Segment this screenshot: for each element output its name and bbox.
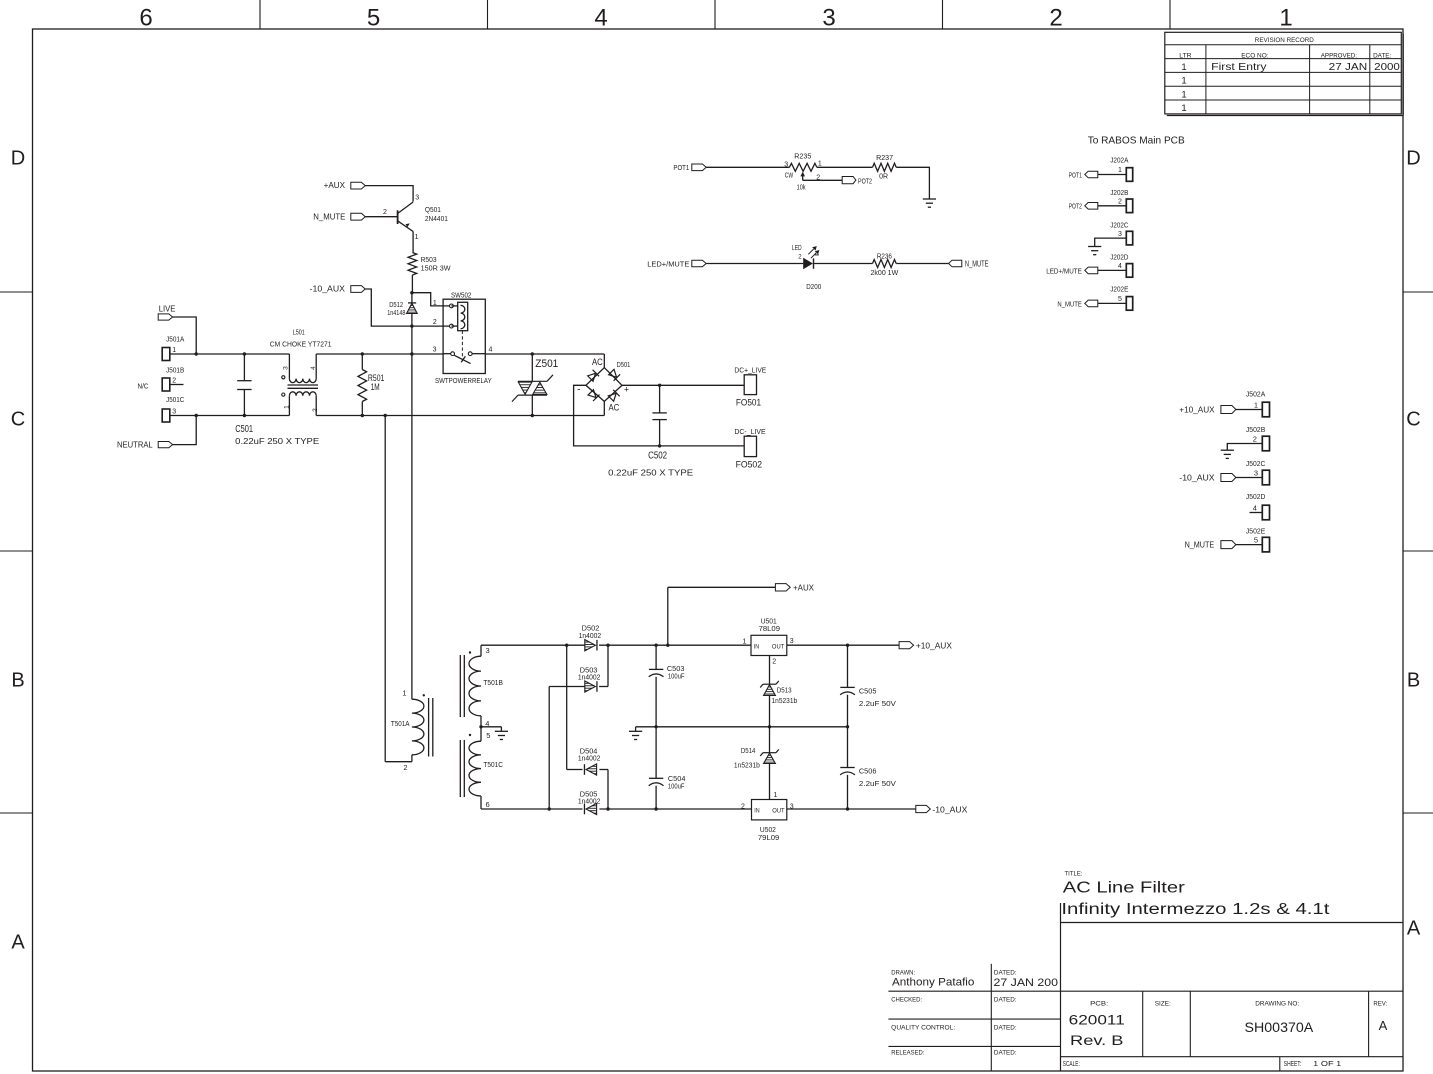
svg-text:AC Line Filter: AC Line Filter xyxy=(1063,880,1185,897)
net tag +AUX at Q501 xyxy=(351,182,365,189)
wire live rail to T501A pin 1 xyxy=(411,354,413,699)
ground at mid rail xyxy=(629,730,642,732)
svg-text:4: 4 xyxy=(488,347,492,354)
svg-text:1: 1 xyxy=(1279,5,1292,32)
svg-text:2: 2 xyxy=(1049,5,1062,32)
svg-text:A: A xyxy=(1379,1018,1388,1033)
svg-text:AC: AC xyxy=(609,403,620,413)
wire T501C pin6 rail xyxy=(481,808,583,810)
svg-text:REV:: REV: xyxy=(1373,1001,1387,1007)
svg-text:2: 2 xyxy=(741,804,745,811)
wire LIVE to J501A pin 1 xyxy=(173,317,197,354)
svg-text:LIVE: LIVE xyxy=(159,304,176,314)
resistor R236 xyxy=(873,260,897,268)
svg-text:B: B xyxy=(11,670,24,692)
svg-text:CM CHOKE YT7271: CM CHOKE YT7271 xyxy=(270,339,332,348)
L501 bottom winding xyxy=(288,396,290,416)
svg-text:2.2uF 50V: 2.2uF 50V xyxy=(859,699,896,708)
svg-text:J501B: J501B xyxy=(166,367,184,374)
wire LED to R236 xyxy=(814,263,873,265)
svg-text:FO501: FO501 xyxy=(736,397,761,407)
svg-text:1n4148: 1n4148 xyxy=(387,310,405,317)
svg-text:2000: 2000 xyxy=(1374,62,1400,73)
T501C core xyxy=(459,740,461,797)
svg-text:100uF: 100uF xyxy=(668,672,685,681)
svg-text:SH00370A: SH00370A xyxy=(1245,1020,1314,1035)
svg-text:C505: C505 xyxy=(859,687,877,696)
svg-text:6: 6 xyxy=(486,800,490,809)
connector J202A xyxy=(1110,158,1128,165)
svg-text:J202D: J202D xyxy=(1110,254,1128,261)
svg-text:1: 1 xyxy=(1181,76,1186,87)
svg-text:4: 4 xyxy=(485,719,489,728)
relay SW502 outline xyxy=(443,299,485,373)
svg-text:1 OF 1: 1 OF 1 xyxy=(1313,1061,1341,1068)
inductor L501 CM choke top winding xyxy=(288,354,290,379)
pin labels Q501 xyxy=(383,195,448,242)
transformer T501B secondary xyxy=(480,645,482,656)
svg-text:2: 2 xyxy=(772,659,776,666)
faston FO502 DC-_LIVE xyxy=(744,436,756,456)
svg-text:PCB:: PCB: xyxy=(1090,1001,1109,1007)
vertical D502 junction down to D504 xyxy=(566,645,568,769)
svg-text:AC: AC xyxy=(592,357,603,367)
wire U502 out to -10_AUX xyxy=(787,808,916,810)
capacitor C501 xyxy=(243,354,245,381)
svg-text:+: + xyxy=(624,385,629,395)
svg-text:2: 2 xyxy=(1118,199,1122,206)
pin 1 J501A xyxy=(170,353,290,355)
wire U501 gnd pin to D513 xyxy=(769,656,771,685)
svg-text:DC-_LIVE: DC-_LIVE xyxy=(734,427,765,436)
T501C polarity dot xyxy=(469,734,471,736)
regulator U501 78L09 xyxy=(751,635,787,655)
net tag N_MUTE right xyxy=(949,260,962,267)
relay armature dashed link xyxy=(461,331,463,360)
T501 pins 4/5 junction to ground xyxy=(481,726,501,728)
svg-text:D514: D514 xyxy=(741,748,756,755)
wire R235 to R237 xyxy=(817,166,873,168)
svg-text:-10_AUX: -10_AUX xyxy=(1179,472,1215,482)
svg-text:5: 5 xyxy=(367,5,380,32)
svg-text:C: C xyxy=(1406,409,1420,431)
svg-text:1: 1 xyxy=(1181,89,1186,100)
transformer T501A primary xyxy=(412,699,424,755)
svg-text:D512: D512 xyxy=(389,302,403,309)
faston FO501 DC+_LIVE xyxy=(744,375,756,395)
junction LIVE/pin1 xyxy=(195,352,198,355)
svg-text:Infinity Intermezzo 1.2s & 4.1: Infinity Intermezzo 1.2s & 4.1t xyxy=(1061,901,1330,918)
svg-text:N_MUTE: N_MUTE xyxy=(1185,539,1215,549)
svg-text:27 JAN: 27 JAN xyxy=(1329,62,1368,73)
connector J501C xyxy=(162,409,170,422)
wire R237 to ground xyxy=(896,167,929,199)
svg-text:R237: R237 xyxy=(876,155,893,162)
svg-text:4: 4 xyxy=(1253,503,1257,512)
svg-text:+AUX: +AUX xyxy=(793,583,814,593)
svg-text:5: 5 xyxy=(486,731,490,740)
net tag POT1 xyxy=(692,164,706,171)
capacitor C504 xyxy=(655,727,657,779)
svg-text:6: 6 xyxy=(139,5,152,32)
connector J202B xyxy=(1110,190,1128,197)
regulator U502 79L09 xyxy=(752,800,787,820)
svg-text:+10_AUX: +10_AUX xyxy=(916,641,952,651)
wire POT1 to R235 xyxy=(706,166,789,168)
svg-text:0R: 0R xyxy=(879,173,888,180)
svg-text:1: 1 xyxy=(1254,400,1258,409)
relay pin 3 wire xyxy=(316,353,443,355)
svg-text:A: A xyxy=(1407,918,1421,940)
net tag -10_AUX at relay coil xyxy=(351,286,365,293)
transformer T501C secondary xyxy=(480,727,482,741)
transistor Q501 xyxy=(397,210,399,224)
svg-text:79L09: 79L09 xyxy=(758,833,779,842)
varistor Z501 xyxy=(531,354,533,381)
svg-text:1n4002: 1n4002 xyxy=(579,633,602,640)
L501 core xyxy=(288,384,319,386)
svg-text:N_MUTE: N_MUTE xyxy=(965,259,989,269)
svg-text:APPROVED:: APPROVED: xyxy=(1321,53,1357,60)
net tag +AUX output xyxy=(667,587,669,645)
connector J502C xyxy=(1246,461,1265,468)
svg-text:Anthony Patafio: Anthony Patafio xyxy=(892,977,974,989)
wire Q501 emitter to R503 xyxy=(412,232,414,253)
svg-text:3: 3 xyxy=(283,366,290,370)
svg-text:REVISION RECORD: REVISION RECORD xyxy=(1255,37,1314,44)
svg-text:QUALITY CONTROL:: QUALITY CONTROL: xyxy=(891,1025,955,1031)
svg-text:0.22uF 250 X TYPE: 0.22uF 250 X TYPE xyxy=(608,468,693,478)
svg-text:DRAWING NO:: DRAWING NO: xyxy=(1255,1001,1299,1007)
svg-text:1n4002: 1n4002 xyxy=(578,756,601,763)
svg-text:T501B: T501B xyxy=(483,678,503,687)
connector J502E xyxy=(1246,528,1266,535)
svg-text:LED+/MUTE: LED+/MUTE xyxy=(1046,268,1082,275)
svg-text:LED: LED xyxy=(792,243,802,252)
svg-text:1M: 1M xyxy=(371,382,380,392)
svg-text:TITLE:: TITLE: xyxy=(1065,872,1083,878)
svg-text:T501A: T501A xyxy=(391,719,410,728)
svg-text:3: 3 xyxy=(415,195,419,202)
svg-text:C506: C506 xyxy=(859,767,877,776)
svg-text:C502: C502 xyxy=(648,451,667,462)
svg-text:DC+_LIVE: DC+_LIVE xyxy=(734,366,766,375)
svg-text:LED+/MUTE: LED+/MUTE xyxy=(647,259,689,268)
svg-text:To RABOS Main PCB: To RABOS Main PCB xyxy=(1088,135,1185,147)
svg-text:OUT: OUT xyxy=(772,808,784,815)
svg-text:N/C: N/C xyxy=(138,381,149,390)
svg-text:DATED:: DATED: xyxy=(994,1051,1017,1057)
svg-text:4: 4 xyxy=(310,366,317,370)
junction NEUTRAL/pin3 xyxy=(195,414,198,417)
wire R236 to N_MUTE tag xyxy=(896,263,948,265)
svg-text:IN: IN xyxy=(754,643,760,650)
svg-text:1n4002: 1n4002 xyxy=(578,799,601,806)
capacitor C505 xyxy=(847,645,849,687)
svg-text:T501C: T501C xyxy=(483,760,503,769)
wire -10_AUX to relay pin 2 node xyxy=(365,289,412,326)
wire T501B pin3 to D502 xyxy=(481,644,585,646)
relay pin 4 wire xyxy=(472,353,485,355)
wire pin2 node to relay pin 2 xyxy=(412,325,450,327)
svg-text:SIZE:: SIZE: xyxy=(1155,1001,1171,1007)
wire Q501 base xyxy=(365,216,398,218)
svg-text:1: 1 xyxy=(284,405,291,409)
T501B polarity dot xyxy=(469,651,471,653)
svg-text:FO502: FO502 xyxy=(736,459,762,469)
pin 2 J501B n/c stub xyxy=(170,384,184,386)
wire NEUTRAL to J501C pin 3 xyxy=(173,416,197,445)
svg-text:1: 1 xyxy=(1181,103,1186,114)
ground at R237 xyxy=(923,198,936,200)
svg-text:J202E: J202E xyxy=(1110,287,1128,294)
svg-text:-10_AUX: -10_AUX xyxy=(932,804,967,814)
svg-text:D502: D502 xyxy=(582,626,600,633)
svg-text:R236: R236 xyxy=(877,253,892,260)
svg-text:27 JAN 200: 27 JAN 200 xyxy=(994,977,1059,989)
svg-text:3: 3 xyxy=(486,646,490,655)
svg-text:2: 2 xyxy=(816,174,820,181)
svg-text:1n5231b: 1n5231b xyxy=(734,763,760,770)
svg-text:1: 1 xyxy=(415,234,419,241)
connector J502B with ground xyxy=(1246,427,1266,434)
title block xyxy=(888,903,1403,1071)
svg-text:LTR: LTR xyxy=(1179,53,1192,60)
svg-text:C501: C501 xyxy=(235,424,253,435)
svg-text:100uF: 100uF xyxy=(668,782,685,791)
connector J202C with ground xyxy=(1110,222,1128,229)
resistor R237 xyxy=(873,163,897,171)
svg-text:Q501: Q501 xyxy=(425,205,441,214)
svg-text:CHECKED:: CHECKED: xyxy=(891,997,922,1003)
svg-text:3: 3 xyxy=(1118,231,1122,238)
svg-text:J501A: J501A xyxy=(166,337,184,344)
svg-text:R235: R235 xyxy=(794,153,811,160)
svg-text:2k00 1W: 2k00 1W xyxy=(871,268,900,277)
svg-text:2: 2 xyxy=(383,209,387,216)
zener D514 xyxy=(769,727,771,753)
vertical D503 anode down to pin6 rail xyxy=(548,687,550,810)
svg-text:D: D xyxy=(1406,148,1420,170)
svg-text:D504: D504 xyxy=(580,748,598,755)
svg-text:SHEET:: SHEET: xyxy=(1284,1061,1301,1068)
svg-text:4: 4 xyxy=(594,5,607,32)
svg-text:DATED:: DATED: xyxy=(994,1025,1017,1031)
svg-text:5: 5 xyxy=(1254,535,1258,544)
svg-text:78L09: 78L09 xyxy=(759,624,780,633)
diode D502 xyxy=(585,640,596,651)
svg-text:1n5231b: 1n5231b xyxy=(772,698,798,705)
svg-text:J502E: J502E xyxy=(1246,528,1266,535)
svg-text:N_MUTE: N_MUTE xyxy=(313,211,345,221)
connector J501A xyxy=(162,348,170,361)
bridge DC- wire xyxy=(574,385,745,446)
connector J501B xyxy=(162,378,170,391)
svg-text:3: 3 xyxy=(790,804,794,811)
zone tick marks xyxy=(0,0,1433,813)
R235 wiper xyxy=(800,172,805,177)
svg-text:IN: IN xyxy=(754,808,760,815)
wire U501 out to +10_AUX xyxy=(787,644,899,646)
svg-text:2: 2 xyxy=(1253,434,1257,443)
relay coil SW502 xyxy=(458,302,468,330)
svg-text:1: 1 xyxy=(402,688,406,697)
net tag +10_AUX output xyxy=(899,642,914,649)
svg-text:J501C: J501C xyxy=(166,397,184,404)
svg-text:3: 3 xyxy=(784,161,788,168)
connector J202D xyxy=(1110,254,1128,261)
svg-text:3: 3 xyxy=(1254,468,1258,477)
relay switch contacts xyxy=(451,352,455,356)
svg-text:Z501: Z501 xyxy=(535,358,558,370)
svg-text:D501: D501 xyxy=(617,362,631,369)
bridge DC+ wire xyxy=(622,384,744,386)
svg-text:Rev. B: Rev. B xyxy=(1070,1032,1124,1048)
net tag N_MUTE at Q501 xyxy=(351,213,365,220)
svg-text:POT2: POT2 xyxy=(858,176,872,185)
connector J202E xyxy=(1110,287,1128,294)
svg-text:DATE:: DATE: xyxy=(1373,53,1391,60)
svg-text:J502A: J502A xyxy=(1246,392,1266,399)
svg-text:DATED:: DATED: xyxy=(994,971,1017,977)
svg-text:SWTPOWERRELAY: SWTPOWERRELAY xyxy=(435,376,492,385)
diode D512 xyxy=(408,302,416,304)
svg-text:5: 5 xyxy=(1118,296,1122,303)
svg-text:1: 1 xyxy=(818,160,822,167)
svg-text:3: 3 xyxy=(790,638,794,645)
capacitor C506 xyxy=(847,727,849,768)
svg-text:J502C: J502C xyxy=(1246,461,1265,468)
svg-text:J202A: J202A xyxy=(1110,158,1128,165)
svg-text:-10_AUX: -10_AUX xyxy=(310,284,346,294)
svg-text:RELEASED:: RELEASED: xyxy=(891,1051,925,1057)
wire pin6 node to D503 anode xyxy=(549,686,585,688)
svg-text:D503: D503 xyxy=(580,668,598,675)
svg-text:-: - xyxy=(577,385,580,396)
svg-text:L501: L501 xyxy=(293,327,305,336)
svg-text:1: 1 xyxy=(773,792,777,799)
svg-text:SW502: SW502 xyxy=(451,290,471,299)
svg-text:1n4002: 1n4002 xyxy=(578,675,601,682)
svg-text:B: B xyxy=(1407,670,1420,692)
svg-text:NEUTRAL: NEUTRAL xyxy=(117,440,153,450)
revision record table xyxy=(1165,32,1404,115)
svg-text:3: 3 xyxy=(172,408,176,415)
net tag LIVE xyxy=(158,314,172,320)
capacitor C503 xyxy=(655,645,657,669)
capacitor C502 xyxy=(659,385,661,413)
net tag POT2 xyxy=(842,177,856,184)
svg-text:J202C: J202C xyxy=(1110,222,1128,229)
diode D504 xyxy=(567,769,583,771)
svg-text:1: 1 xyxy=(1118,167,1122,174)
svg-text:J502B: J502B xyxy=(1246,427,1266,434)
wire D512 node down to live rail xyxy=(411,326,413,354)
diode D503 xyxy=(585,681,596,692)
pin 3 J501C xyxy=(170,415,290,417)
wire D502 cathode to +V rail xyxy=(599,644,751,646)
svg-text:0.22uF 250 X TYPE: 0.22uF 250 X TYPE xyxy=(235,436,319,446)
svg-text:A: A xyxy=(11,932,25,954)
svg-text:D200: D200 xyxy=(806,282,821,291)
T501A polarity dot xyxy=(423,694,425,696)
svg-text:+10_AUX: +10_AUX xyxy=(1179,404,1215,414)
svg-text:POT1: POT1 xyxy=(673,163,689,172)
svg-text:D505: D505 xyxy=(580,791,598,798)
T501A core xyxy=(428,698,430,757)
svg-text:SCALE:: SCALE: xyxy=(1063,1061,1080,1068)
wire neutral rail to T501A pin 2 xyxy=(384,416,386,762)
connector J502D xyxy=(1246,494,1265,501)
LED D200 xyxy=(803,258,813,269)
svg-text:2: 2 xyxy=(403,763,407,772)
svg-text:3: 3 xyxy=(433,347,437,354)
mid ground rail xyxy=(636,726,848,728)
svg-text:+AUX: +AUX xyxy=(324,180,346,190)
svg-text:150R 3W: 150R 3W xyxy=(421,264,452,273)
svg-text:2.2uF 50V: 2.2uF 50V xyxy=(859,779,896,788)
vertical D503 cathode up to +V rail xyxy=(607,645,609,686)
L501 polarity circles xyxy=(282,376,285,379)
wire +AUX to Q501 collector xyxy=(365,186,413,202)
resistor R501 xyxy=(361,354,363,370)
svg-text:2N4401: 2N4401 xyxy=(425,214,448,223)
svg-text:620011: 620011 xyxy=(1069,1012,1125,1028)
potentiometer R235 xyxy=(789,163,817,171)
svg-text:4: 4 xyxy=(1118,263,1122,270)
svg-text:2: 2 xyxy=(172,377,176,384)
svg-text:CW: CW xyxy=(785,173,794,180)
net tag -10_AUX output xyxy=(916,805,931,812)
vertical D504 anode down to -V rail xyxy=(607,770,609,810)
bridge rectifier D501 xyxy=(586,368,622,402)
svg-text:OUT: OUT xyxy=(772,643,784,650)
svg-text:N_MUTE: N_MUTE xyxy=(1057,301,1082,308)
T501B core xyxy=(459,655,461,717)
zener D513 xyxy=(763,683,776,685)
svg-text:J202B: J202B xyxy=(1110,190,1128,197)
diode D505 xyxy=(586,803,597,814)
svg-text:POT2: POT2 xyxy=(1069,204,1082,211)
svg-text:D513: D513 xyxy=(777,688,792,695)
svg-text:First Entry: First Entry xyxy=(1211,62,1266,73)
svg-text:1: 1 xyxy=(743,639,747,646)
svg-text:2: 2 xyxy=(312,408,319,412)
net tag NEUTRAL xyxy=(158,442,172,448)
svg-text:2: 2 xyxy=(433,319,437,326)
wire LED+/MUTE to LED xyxy=(706,263,803,265)
svg-text:POT1: POT1 xyxy=(1069,172,1082,179)
svg-text:ECO NO:: ECO NO: xyxy=(1241,53,1268,60)
svg-text:1: 1 xyxy=(172,347,176,354)
svg-text:C: C xyxy=(11,409,25,431)
svg-text:10k: 10k xyxy=(797,182,806,191)
svg-text:1: 1 xyxy=(433,300,437,307)
wire R503 node to relay pin 1 xyxy=(412,293,450,306)
resistor R503 xyxy=(408,253,417,276)
svg-text:1: 1 xyxy=(1181,62,1186,73)
svg-text:3: 3 xyxy=(822,5,835,32)
svg-text:D: D xyxy=(11,148,25,170)
svg-text:DATED:: DATED: xyxy=(994,997,1017,1003)
bridge stubs xyxy=(603,354,605,368)
net tag LED+/MUTE xyxy=(692,260,706,267)
connector J502A xyxy=(1246,392,1266,399)
svg-text:J502D: J502D xyxy=(1246,494,1265,501)
